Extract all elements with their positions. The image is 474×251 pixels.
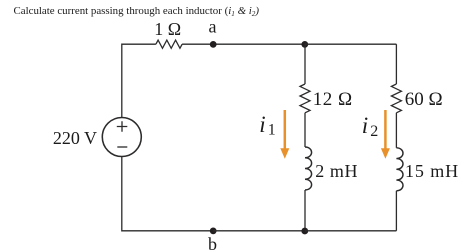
svg-text:2 mH: 2 mH <box>315 161 358 181</box>
resistor R3 60 ohm (vertical zigzag) <box>391 84 401 113</box>
wire: circle bottom to bottom-left corner to node b <box>122 157 213 231</box>
svg-text:60 Ω: 60 Ω <box>405 89 443 110</box>
wire: top junction to top-right corner <box>305 43 396 45</box>
svg-text:a: a <box>209 17 217 37</box>
wire: top junction down to R2 <box>304 44 306 84</box>
junction dot top middle <box>301 41 308 48</box>
svg-text:1 Ω: 1 Ω <box>154 19 181 39</box>
wire: bottom junction to bottom-right corner <box>305 230 396 232</box>
svg-text:Calculate current passing thro: Calculate current passing through each i… <box>14 5 260 18</box>
resistor R1 1 ohm (horizontal zigzag) <box>156 40 182 48</box>
wire: R3 to L2 <box>395 113 397 148</box>
wire: R1 to node a to top junction <box>182 43 305 45</box>
svg-text:b: b <box>208 234 217 251</box>
svg-text:i: i <box>259 112 265 137</box>
svg-text:220 V: 220 V <box>53 128 97 148</box>
svg-text:15 mH: 15 mH <box>405 161 459 181</box>
node b dot <box>210 228 217 235</box>
wire: top-right corner down to R3 <box>395 44 397 84</box>
current arrow i2 (orange) <box>381 110 390 159</box>
inductor L2 15 mH (coil) <box>396 148 403 191</box>
inductor L1 2 mH (coil) <box>305 147 312 190</box>
svg-text:12 Ω: 12 Ω <box>313 89 353 110</box>
resistor R2 12 ohm (vertical zigzag) <box>300 84 310 113</box>
junction dot bottom middle <box>301 228 308 235</box>
node a dot <box>210 41 217 48</box>
svg-text:1: 1 <box>268 122 276 139</box>
wire: node b to bottom junction <box>213 230 305 232</box>
svg-text:2: 2 <box>370 123 378 140</box>
voltage source minus sign <box>117 146 127 148</box>
wire: L1 to bottom junction <box>304 190 306 231</box>
current arrow i1 (orange) <box>280 110 289 159</box>
wire: circle top to top-left corner to R1 <box>122 44 156 118</box>
voltage source plus sign <box>117 121 128 132</box>
svg-text:i: i <box>362 113 368 138</box>
wire: L2 to bottom-right corner <box>395 191 397 231</box>
voltage source V1 circle <box>102 118 141 157</box>
wire: R2 to L1 <box>304 113 306 147</box>
